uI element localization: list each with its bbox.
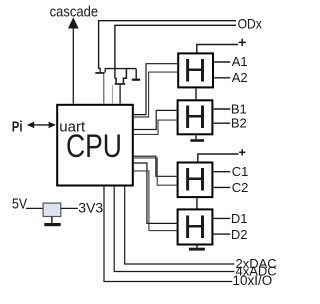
svg-text:3V3: 3V3 [78,200,103,216]
wire faint left of T2 output [111,85,113,104]
wire CPU to D2 pin [134,171,177,231]
wire T2 output to CPU [119,85,121,104]
svg-text:ODx: ODx [238,16,263,32]
wire CPU to C1 pin [134,156,177,176]
wire C-D connector [196,198,198,209]
wire rail top [105,68,137,70]
wire 5V to regulator [26,207,44,209]
transistor T1 [95,68,105,73]
svg-text:10xI/O: 10xI/O [233,273,273,288]
svg-text:B1: B1 [231,101,247,116]
svg-text:H: H [183,162,206,198]
wire B2 stub [214,122,231,124]
wire Pi uart double arrow [27,122,56,129]
ground below D [189,246,205,251]
h-bridge A [178,53,213,87]
svg-text:D1: D1 [231,211,248,226]
svg-text:cascade: cascade [50,3,99,20]
wire ODx line2 [115,25,236,78]
transistor T2 [115,69,127,85]
svg-text:H: H [183,209,206,245]
svg-text:B2: B2 [231,116,247,131]
wire CPU to C2 pin [134,158,177,185]
wire A1 stub [214,61,230,63]
wire CPU to B1 pin [134,110,177,129]
wire C1 stub [214,171,231,173]
svg-text:5V: 5V [12,195,27,211]
arrowhead cascade up [68,17,79,28]
svg-text:D2: D2 [231,227,248,242]
wire CPU to B2 pin [134,120,177,134]
h-bridge B [178,100,213,134]
wire CPU to 10xI/O [104,186,232,281]
svg-text:CPU: CPU [66,129,122,165]
wire T1 output to CPU [103,74,105,104]
svg-text:C2: C2 [232,180,249,195]
svg-text:A2: A2 [232,70,248,85]
wire +A [197,45,238,53]
svg-text:Pi: Pi [12,118,23,135]
wire C2 stub [214,186,231,188]
svg-text:C1: C1 [232,164,249,179]
wire CPU to 4xADC [114,186,234,271]
wire A2 stub [214,77,230,79]
wire cascade vertical [72,26,74,104]
svg-text:H: H [183,52,206,88]
wire CPU to A2 pin [134,72,177,117]
node + A label [239,39,246,46]
wire CPU to D1 pin [134,163,177,223]
regulator VR1 [43,203,61,216]
wire ODx line1 [99,21,236,69]
wire +C [198,154,239,162]
svg-text:H: H [183,99,206,135]
wire B1 stub [214,108,231,110]
wire regulator to 3V3 [61,207,78,209]
h-bridge C [178,163,213,198]
wire D1 stub [213,217,230,219]
svg-text:A1: A1 [232,54,248,69]
CPU U1 [57,105,133,186]
wire D2 stub [213,233,230,235]
ground below B [190,135,204,142]
ground terminator right of T2 [132,69,140,81]
h-bridge D [178,209,213,244]
wire CPU to 2xDAC [125,186,235,264]
wire A-B connector [195,89,197,100]
ground below regulator [44,217,60,227]
node + C label [239,149,245,155]
wire CPU to A1 pin [134,64,177,115]
